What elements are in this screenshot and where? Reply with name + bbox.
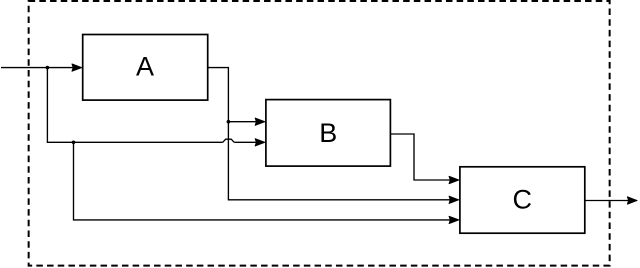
wire from block A output to block C second input	[208, 68, 459, 204]
block A	[83, 35, 208, 101]
junction dot J2	[72, 141, 76, 145]
block C	[460, 167, 585, 233]
wire output from block C	[585, 197, 637, 204]
wire from J3 to block B first input	[228, 118, 264, 125]
wire from J2 to block C third input	[74, 142, 459, 223]
junction dot J1	[46, 66, 50, 70]
wire from J1 to block B second input (with hop)	[47, 68, 264, 146]
svg-text:C: C	[513, 185, 533, 215]
svg-text:B: B	[319, 118, 337, 148]
wire input	[1, 64, 82, 71]
svg-text:A: A	[136, 52, 154, 82]
wire from block B output to block C first input	[390, 134, 458, 184]
junction dot J3	[227, 120, 231, 124]
block B	[266, 100, 391, 167]
